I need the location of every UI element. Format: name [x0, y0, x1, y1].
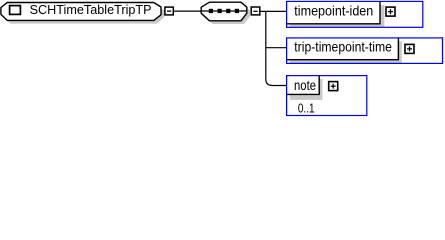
svg-text:note: note — [294, 77, 316, 93]
plus sign note — [331, 84, 336, 89]
element icon square — [10, 6, 21, 15]
sequence compositor octagon — [201, 2, 247, 21]
wire trunk horizontal to timepoint-iden — [260, 10, 287, 12]
element timepoint-iden border — [286, 2, 380, 24]
collapse box 1 — [165, 7, 173, 15]
element note border — [287, 76, 320, 95]
element timepoint-iden box — [286, 1, 380, 23]
svg-text:0..1: 0..1 — [298, 102, 315, 116]
plus sign timepoint-iden — [388, 9, 393, 14]
element SCHTimeTableTripTP shadow — [4, 6, 164, 24]
element trip-timepoint-time border — [286, 38, 398, 60]
element trip-timepoint-time shadow — [290, 41, 402, 63]
wire root to sequence — [174, 10, 202, 12]
element note shadow — [290, 79, 323, 100]
plus sign trip-timepoint-time — [407, 46, 412, 51]
frame trip-timepoint-time (blue) — [287, 38, 443, 64]
frame timepoint-iden (blue) — [287, 1, 423, 27]
svg-text:SCHTimeTableTripTP: SCHTimeTableTripTP — [30, 2, 152, 17]
element timepoint-iden shadow — [290, 5, 385, 27]
sequence dot 1 — [209, 9, 213, 13]
expand box timepoint-iden — [386, 7, 395, 16]
sequence dot 2 — [218, 9, 222, 13]
element trip-timepoint-time box — [286, 38, 397, 59]
sequence dot 3 — [226, 9, 230, 13]
wire branch to trip-timepoint-time — [266, 47, 287, 49]
sequence line — [202, 10, 247, 12]
svg-text:timepoint-iden: timepoint-iden — [294, 3, 373, 19]
expand box trip-timepoint-time — [405, 44, 414, 53]
sequence compositor shadow — [204, 5, 250, 24]
element note box — [287, 76, 319, 95]
collapse box 2 — [251, 7, 260, 15]
expand box note — [329, 82, 338, 91]
frame note (blue) — [287, 76, 367, 116]
element SCHTimeTableTripTP box — [1, 3, 161, 21]
wire trunk vertical with elbow to note — [266, 11, 287, 85]
minus sign 2 — [253, 10, 257, 12]
svg-text:trip-timepoint-time: trip-timepoint-time — [294, 39, 392, 55]
minus sign 1 — [167, 10, 171, 12]
sequence dot 4 — [235, 9, 239, 13]
